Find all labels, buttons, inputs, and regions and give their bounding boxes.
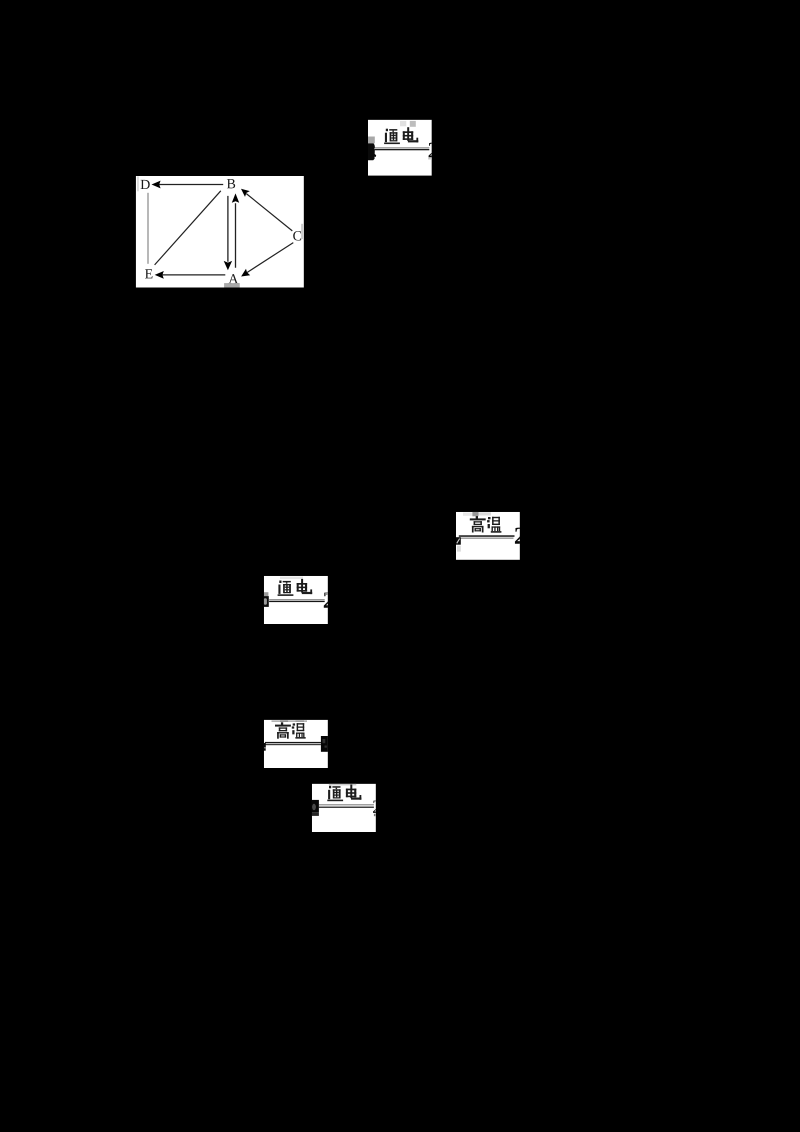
panel3 left clipped char — [456, 537, 461, 545]
panel6 equals lower line — [319, 807, 374, 808]
panel3 equals lower line — [458, 538, 514, 539]
node C — [293, 231, 301, 240]
graph diagram panel — [136, 176, 304, 288]
node D — [141, 180, 150, 189]
panel3 left clipped char slash — [457, 539, 460, 544]
panel4 gray cap above 2 — [325, 592, 328, 595]
panel1 clipped product coefficient 2 — [429, 143, 438, 158]
edge C to A arrowhead — [241, 269, 250, 277]
panel6 clipped product coefficient 2 — [373, 800, 381, 813]
equation panel 3 (高温) — [456, 512, 520, 560]
panel3 top gray smudge c — [479, 512, 492, 515]
panel6 gray tip above 2 — [374, 800, 376, 802]
panel1 equals lower line — [375, 149, 430, 150]
panel4 label 通 — [278, 581, 294, 596]
edge A to E line — [162, 274, 226, 276]
panel5 equals upper line — [265, 742, 321, 743]
panel4 left clipped O ring — [264, 596, 269, 607]
panel1 top gray smudge a — [400, 121, 406, 126]
panel3 top gray smudge a — [463, 513, 472, 516]
node B — [227, 179, 235, 188]
panel1 equals upper line — [375, 147, 430, 148]
panel5 left clipped char bump a — [264, 743, 266, 748]
panel5 left clipped char bump b — [264, 748, 266, 751]
edge C to B line — [246, 194, 292, 231]
panel5 label 温 — [292, 723, 306, 738]
node A — [228, 274, 238, 283]
equation panel 1 (2H2O =通电= 2H2 + O2) — [368, 120, 432, 176]
panel5 right clipped 2 with arrow blob — [321, 736, 328, 752]
panel5 top gray band dark b — [296, 720, 305, 722]
panel1 left gray smudge — [368, 137, 375, 144]
panel4 clipped product coefficient 2 — [324, 592, 334, 608]
gray highlight under A — [224, 283, 240, 287]
panel5 right blob inner mark b — [325, 746, 327, 748]
panel6 label 通 — [327, 786, 343, 801]
panel3 clipped product coefficient 2 — [515, 528, 525, 544]
panel1 top gray smudge b — [410, 121, 416, 127]
gray bar right of C — [301, 224, 303, 239]
equation panel 6 (通电) — [312, 784, 376, 832]
equation panel 5 (高温) — [264, 720, 328, 768]
panel3 top gray smudge b — [472, 512, 478, 516]
panel3 label 高 — [470, 516, 486, 532]
panel5 equals lower line — [264, 744, 321, 745]
edge B to A line — [227, 196, 229, 262]
panel1 label 电 — [403, 127, 419, 142]
panel1 clipped reactant O — [368, 143, 376, 160]
edge B to A arrowhead — [224, 261, 232, 270]
panel5 label 高 — [275, 722, 291, 738]
panel4 left gray smudge — [264, 592, 269, 596]
panel4 equals upper line — [269, 599, 325, 600]
panel6 left blob bottom strip — [312, 812, 319, 816]
edge B to D line — [159, 184, 224, 186]
edge C to A line — [247, 243, 293, 273]
panel3 label 温 — [487, 517, 501, 533]
panel1 label 通 — [384, 129, 400, 144]
edge A to E arrowhead — [155, 271, 164, 279]
gray bar left of D — [137, 176, 138, 191]
panel6 gray mark below 2 — [374, 814, 376, 816]
panel5 top gray band — [272, 720, 308, 722]
edge B to E line — [155, 191, 221, 265]
panel3 left lower gray smudge — [457, 546, 461, 552]
edge A to B arrowhead — [232, 193, 239, 202]
panel4 equals lower line — [269, 601, 325, 602]
edge B to D arrowhead — [152, 181, 161, 189]
panel6 equals upper line — [319, 804, 374, 805]
panel4 left clipped O counter — [264, 598, 267, 604]
panel6 left blob inner counter — [312, 804, 316, 810]
panel6 top gray smudge — [329, 784, 357, 786]
edge A to B line — [235, 203, 237, 268]
panel4 top gray smudge — [280, 577, 303, 580]
panel5 right blob inner mark a — [323, 739, 326, 743]
panel5 top gray band dark a — [280, 720, 288, 722]
panel6 left clipped a blob — [312, 800, 319, 812]
panel1 small gray mark — [428, 158, 431, 160]
edge D to E gray line — [147, 193, 148, 264]
panel3 equals upper line — [459, 535, 515, 537]
equation panel 4 (通电) — [264, 576, 328, 624]
edge C to B arrowhead — [241, 189, 250, 197]
panel6 label 电 — [346, 785, 362, 800]
node E — [145, 269, 152, 278]
panel4 label 电 — [297, 579, 313, 594]
